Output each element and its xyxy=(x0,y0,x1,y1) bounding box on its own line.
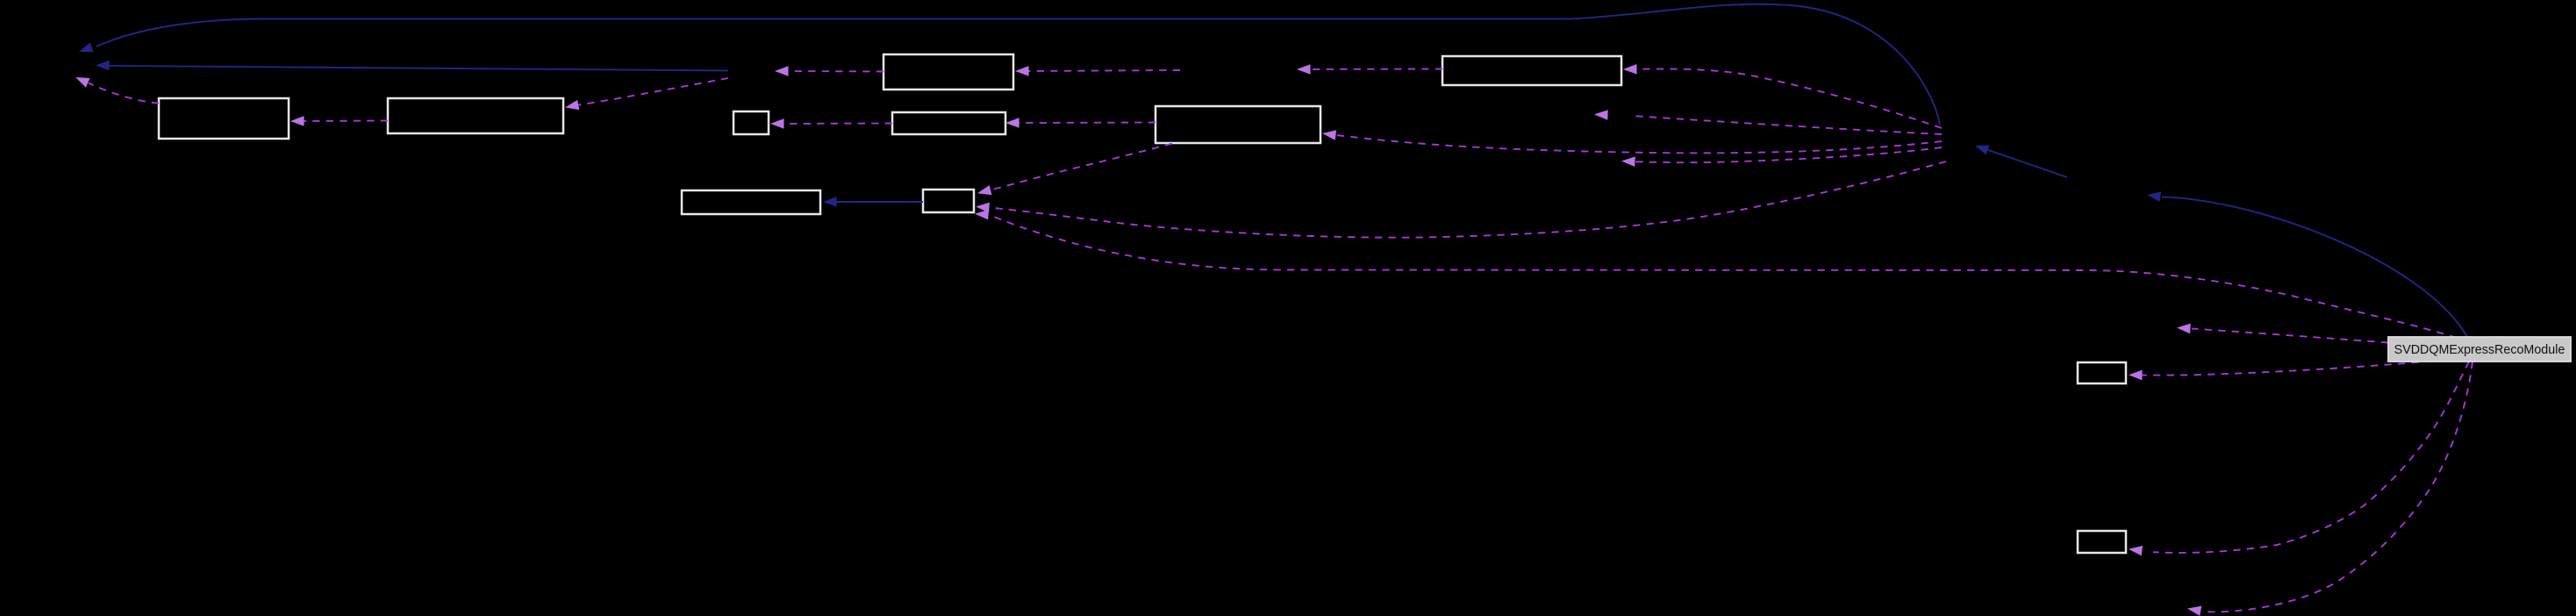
edge SVDDQM->M xyxy=(2129,362,2469,555)
edge J->K1 xyxy=(1594,110,1942,134)
box H xyxy=(923,190,974,212)
edge J->K2 xyxy=(1621,147,1942,167)
box F xyxy=(1156,106,1320,143)
edge SVDDQM->bottom arrow xyxy=(2187,362,2472,616)
edge E->D xyxy=(770,118,892,129)
edge P2->C xyxy=(1015,66,1180,76)
edge node->PathElement (straight blue) xyxy=(96,61,728,71)
svg-text:SVDDQMExpressRecoModule: SVDDQMExpressRecoModule xyxy=(2394,343,2565,357)
edge Module->PathElement (top arc) xyxy=(79,4,1940,125)
box M xyxy=(2078,531,2126,553)
edge SVDDQM->L xyxy=(2129,362,2432,381)
box B xyxy=(388,98,563,133)
box D xyxy=(733,111,769,134)
edge I->P2 xyxy=(1297,64,1442,75)
box A xyxy=(159,98,289,139)
edge J->F xyxy=(1322,130,1942,153)
edge J->I xyxy=(1623,64,1942,128)
box G xyxy=(682,190,820,214)
box E xyxy=(892,112,1005,134)
edge HistoModule->Module xyxy=(1975,146,2067,178)
edge SVDDQM->P3 xyxy=(2177,324,2388,343)
box C xyxy=(884,54,1013,90)
edge F->E xyxy=(1005,118,1156,128)
edge F->H xyxy=(977,144,1172,196)
edge C->P1 xyxy=(775,66,884,76)
edge SVDDQMExpressRecoModule->HistoModule xyxy=(2147,191,2467,337)
box L xyxy=(2078,362,2126,383)
edge J->H (sagging) xyxy=(976,161,1946,238)
edge P1->B xyxy=(565,78,728,110)
edge B->A xyxy=(290,116,388,126)
edge A->P0 xyxy=(75,77,159,104)
edge SVDDQM->H (long) xyxy=(975,210,2457,338)
box I xyxy=(1442,56,1621,85)
node SVDDQMExpressRecoModule xyxy=(2388,337,2571,362)
edge smallbox->wide box (blue) xyxy=(823,197,923,207)
